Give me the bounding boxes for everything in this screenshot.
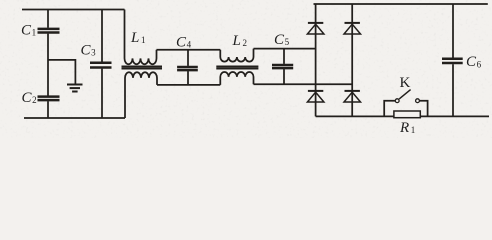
L1 core lines xyxy=(122,66,163,68)
svg-text:C: C xyxy=(21,22,32,38)
wire: bridge left leg xyxy=(315,4,317,116)
wire: switch branch left riser xyxy=(384,101,395,117)
inductor L1 lower winding xyxy=(125,72,157,118)
label R1 xyxy=(399,120,415,136)
capacitor C2 xyxy=(38,95,60,98)
svg-text:L: L xyxy=(130,30,139,46)
svg-text:1: 1 xyxy=(32,27,36,37)
L2 core lines xyxy=(216,66,258,68)
diode D3 xyxy=(307,92,324,102)
label L2 xyxy=(232,33,248,49)
switch K lever xyxy=(399,90,410,99)
switch K left contact xyxy=(395,99,399,103)
svg-text:6: 6 xyxy=(477,59,482,69)
wire: midpoint branch to ground xyxy=(48,60,75,84)
svg-text:C: C xyxy=(22,90,33,106)
diode D4 cathode bar xyxy=(345,90,360,92)
label C5 xyxy=(274,32,290,48)
diode D1 xyxy=(307,24,324,34)
inductor L2 lower winding xyxy=(220,72,253,85)
svg-text:4: 4 xyxy=(187,39,192,49)
capacitor C4 xyxy=(187,50,189,66)
wire: C1 to C2 vertical xyxy=(47,34,49,96)
wire: bridge right leg xyxy=(351,4,353,116)
diode D4 xyxy=(344,92,361,102)
capacitor C6 xyxy=(452,4,454,58)
svg-text:5: 5 xyxy=(285,37,290,47)
svg-text:2: 2 xyxy=(32,95,37,105)
wire: upper rail L2 to bridge xyxy=(254,48,316,50)
label C2 xyxy=(22,90,37,106)
wire: bottom input lead xyxy=(24,117,125,119)
svg-text:1: 1 xyxy=(411,125,416,135)
wire: output bottom xyxy=(316,115,489,117)
svg-text:C: C xyxy=(81,43,92,59)
inductor L2 upper winding xyxy=(220,49,253,62)
capacitor C5 xyxy=(283,49,285,64)
capacitor C1 xyxy=(47,10,49,28)
svg-text:3: 3 xyxy=(91,48,96,58)
svg-text:C: C xyxy=(274,32,285,48)
label C3 xyxy=(81,43,97,59)
paper background xyxy=(0,0,492,138)
label C1 xyxy=(21,22,36,38)
wire: upper rail L1 to L2 xyxy=(157,49,221,51)
svg-text:L: L xyxy=(232,33,241,49)
svg-text:K: K xyxy=(400,75,411,91)
wire: lower rail L2 to bridge (crosses left bridge leg) xyxy=(254,83,353,85)
diode D2 cathode bar xyxy=(345,22,360,24)
diode D2 xyxy=(344,24,361,34)
capacitor C3 xyxy=(101,10,103,62)
diode D3 cathode bar xyxy=(308,90,323,92)
inductor L1 upper winding xyxy=(125,10,157,65)
svg-text:C: C xyxy=(176,34,187,50)
label C6 xyxy=(466,54,482,70)
svg-text:C: C xyxy=(466,54,477,70)
svg-text:1: 1 xyxy=(141,35,146,45)
label C4 xyxy=(176,34,192,50)
svg-text:R: R xyxy=(399,120,409,136)
svg-text:2: 2 xyxy=(243,38,248,48)
wire: switch branch right riser xyxy=(419,101,427,117)
switch K right contact xyxy=(416,99,420,103)
ground xyxy=(67,84,83,86)
wire: bridge top xyxy=(314,3,488,5)
wire: top input lead xyxy=(22,9,125,11)
diode D1 cathode bar xyxy=(308,22,323,24)
label L1 xyxy=(130,30,146,46)
wire: lower rail L1 to L2 xyxy=(157,84,220,86)
resistor R1 xyxy=(394,111,420,118)
